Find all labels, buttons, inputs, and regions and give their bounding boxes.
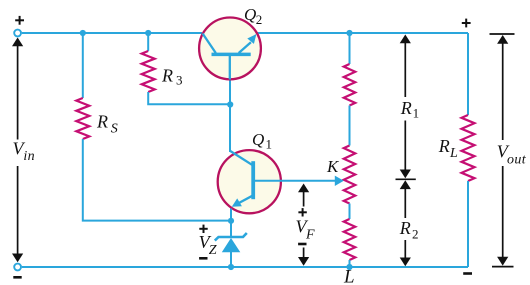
node potentiometer bottom L [346,264,352,270]
resistor RL [462,115,475,181]
Vin measurement arrow [17,45,19,254]
transistor Q2 [199,18,261,80]
potentiometer element (wiper K) [344,146,356,204]
wire RL column top [467,33,469,115]
wire zener to bottom rail [230,252,232,268]
node zener anode on bottom rail [228,264,234,270]
wire bottom rail [22,266,468,268]
svg-text:2: 2 [412,226,419,241]
minus sign input bottom [13,276,21,279]
svg-text:out: out [507,153,527,168]
svg-text:F: F [305,228,315,243]
R2 measurement arrow [404,188,406,259]
wire top rail left of Q2 [22,32,202,34]
wire divider [349,106,351,146]
wire potentiometer column top [349,33,351,64]
plus sign VZ [199,225,207,233]
wiper arrowhead K [335,176,344,186]
svg-text:R: R [400,98,412,118]
node top rail RS junction [80,30,86,36]
transistor Q1 [218,150,281,213]
node top rail potentiometer junction [346,30,352,36]
minus sign VZ [199,257,207,260]
wire Q2 base to Q1 collector [229,56,231,152]
wire Rs column top [82,33,84,98]
minus sign VF [298,243,306,246]
svg-text:L: L [449,146,458,161]
resistor divider lower section [344,219,356,260]
svg-text:S: S [111,122,118,137]
svg-text:R: R [161,66,173,86]
svg-text:R: R [438,136,450,156]
VF measurement arrow [303,190,305,260]
wire RL column bottom [467,181,469,267]
svg-text:3: 3 [176,73,183,88]
wire potentiometer column bottom [349,260,351,267]
wire Q1 base to wiper K [255,180,336,182]
Vout measurement arrow [490,34,515,267]
resistor R3 [142,51,155,92]
zener diode VZ [215,233,247,252]
svg-text:Q: Q [244,5,256,24]
wire Rs column bottom [83,139,231,221]
svg-text:R: R [96,112,108,132]
resistor RS [76,98,89,139]
svg-text:Q: Q [252,130,264,149]
node Q1 emitter / RS junction [228,218,234,224]
svg-text:1: 1 [266,137,273,152]
svg-text:R: R [399,218,411,238]
plus sign output top [462,19,471,28]
wire R3 to Q2 base node [148,92,230,104]
plus sign VF [298,208,306,216]
wire R3 column top [147,33,149,51]
node top rail R3 junction [145,30,151,36]
R1 measurement arrow [396,42,416,179]
wire top rail right of Q2 [257,32,469,34]
resistor divider upper section [344,64,356,106]
svg-text:K: K [326,157,340,176]
svg-text:2: 2 [256,12,262,27]
node Q2 base / R3 junction [227,101,233,107]
wire Q1 emitter down [230,209,232,238]
input terminal bottom [14,264,21,271]
svg-text:Z: Z [209,243,217,258]
plus sign input top [15,16,24,25]
svg-text:1: 1 [413,106,420,121]
svg-text:in: in [23,149,35,164]
wire Q1 emitter below circle [230,209,232,223]
svg-text:L: L [343,267,355,285]
wire divider lower [349,204,351,220]
input terminal top [14,30,21,37]
minus sign output bottom [463,272,472,275]
